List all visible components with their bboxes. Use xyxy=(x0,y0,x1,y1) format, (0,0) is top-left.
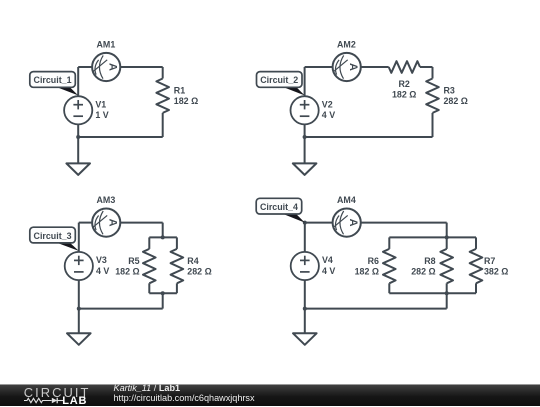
svg-text:182 Ω: 182 Ω xyxy=(392,89,416,99)
voltage source V2 xyxy=(291,96,319,124)
ammeter AM1 xyxy=(92,53,120,81)
wire down to parallel top node xyxy=(162,223,164,238)
wire V4 bottom to ground xyxy=(304,280,306,333)
wire AM2 right to R2 xyxy=(361,66,389,68)
node V4 top corner xyxy=(303,221,307,225)
svg-text:182 Ω: 182 Ω xyxy=(355,267,379,277)
svg-text:4 V: 4 V xyxy=(96,266,109,276)
wire to R1 top xyxy=(162,67,164,79)
svg-text:282 Ω: 282 Ω xyxy=(411,267,435,277)
wire parallel network to bottom xyxy=(446,293,448,308)
wire AM4 right xyxy=(361,222,447,224)
voltage source V3 xyxy=(65,252,93,280)
wire R7 top lead xyxy=(475,237,477,249)
wire AM2 left xyxy=(305,66,333,68)
svg-text:4 V: 4 V xyxy=(322,266,335,276)
wire R6 bottom lead xyxy=(388,283,390,293)
wire R4 bottom lead xyxy=(176,283,178,293)
ground xyxy=(67,333,91,345)
resistor R3 xyxy=(426,79,439,113)
node (junction) xyxy=(76,135,80,139)
svg-text:182 Ω: 182 Ω xyxy=(174,96,198,106)
wire parallel bottom bar xyxy=(149,292,177,294)
label Circuit_4 callout xyxy=(256,198,305,222)
wire parallel top bar xyxy=(149,236,177,238)
svg-text:Circuit_4: Circuit_4 xyxy=(260,202,298,212)
svg-text:V3: V3 xyxy=(96,255,107,265)
wire V3 top xyxy=(78,223,80,252)
wire AM3 right xyxy=(120,222,162,224)
node parallel bottom xyxy=(161,291,165,295)
svg-text:A: A xyxy=(347,63,359,71)
wire R8 bottom lead xyxy=(446,283,448,293)
svg-text:R1: R1 xyxy=(174,86,185,96)
wire bottom circuit 3 xyxy=(79,308,163,310)
ground xyxy=(66,163,90,175)
voltage source V4 xyxy=(291,252,319,280)
svg-text:V4: V4 xyxy=(322,255,333,265)
svg-text:AM2: AM2 xyxy=(337,40,356,50)
resistor R8 xyxy=(440,249,453,283)
wire V1 top to AM1 branch xyxy=(77,67,79,96)
wire V1 bottom to ground xyxy=(77,124,79,163)
resistor R7 xyxy=(470,249,483,283)
footer bar xyxy=(0,384,540,406)
wire bottom circuit 1 xyxy=(78,136,163,138)
svg-text:Circuit_2: Circuit_2 xyxy=(260,75,298,85)
node parallel top circuit 4 xyxy=(445,235,449,239)
wire AM4 left xyxy=(305,222,333,224)
svg-text:R6: R6 xyxy=(368,256,379,266)
node (junction) xyxy=(77,307,81,311)
svg-text:AM4: AM4 xyxy=(337,195,356,205)
svg-text:R3: R3 xyxy=(444,86,455,96)
label Circuit_1 callout xyxy=(30,72,78,96)
svg-text:282 Ω: 282 Ω xyxy=(444,96,468,106)
wire R5 top lead xyxy=(148,237,150,249)
svg-text:A: A xyxy=(106,219,118,227)
wire R4 top lead xyxy=(176,237,178,249)
wire parallel top bar circuit 4 xyxy=(389,236,476,238)
voltage source V1 xyxy=(64,96,92,124)
resistor R5 xyxy=(143,249,156,283)
svg-text:V1: V1 xyxy=(95,100,106,110)
resistor R2 xyxy=(389,61,420,73)
ground xyxy=(293,333,317,345)
ammeter AM4 xyxy=(333,209,361,237)
svg-text:R4: R4 xyxy=(187,256,198,266)
svg-text:R8: R8 xyxy=(424,256,435,266)
wire R2 to corner xyxy=(420,66,433,68)
wire parallel to bottom xyxy=(162,293,164,308)
wire AM3 left xyxy=(79,222,92,224)
wire V4 top xyxy=(304,223,306,252)
svg-text:4 V: 4 V xyxy=(322,110,335,120)
label Circuit_2 callout xyxy=(257,72,305,96)
svg-text:A: A xyxy=(347,219,359,227)
svg-text:V2: V2 xyxy=(322,100,333,110)
svg-text:182 Ω: 182 Ω xyxy=(115,267,139,277)
svg-text:Circuit_1: Circuit_1 xyxy=(34,75,72,85)
node parallel bottom circuit 4 xyxy=(445,291,449,295)
wire R3 bottom xyxy=(432,113,434,137)
wire V2 bottom to ground xyxy=(304,124,306,163)
svg-text:Circuit_3: Circuit_3 xyxy=(34,231,72,241)
node (junction) xyxy=(303,135,307,139)
wire R6 top lead xyxy=(388,237,390,249)
svg-text:A: A xyxy=(106,63,118,71)
CircuitLab logo xyxy=(24,385,91,400)
wire V2 top xyxy=(304,67,306,96)
wire R8 top lead xyxy=(446,237,448,249)
wire AM1 right xyxy=(120,66,162,68)
wire bottom circuit 4 xyxy=(305,308,447,310)
svg-text:1 V: 1 V xyxy=(95,110,108,120)
node parallel top xyxy=(161,235,165,239)
ground xyxy=(293,163,317,175)
svg-text:AM1: AM1 xyxy=(97,40,116,50)
svg-text:R5: R5 xyxy=(128,256,139,266)
svg-text:AM3: AM3 xyxy=(97,195,116,205)
footer text xyxy=(114,383,255,403)
label Circuit_3 callout xyxy=(30,227,79,251)
ammeter AM3 xyxy=(92,209,120,237)
wire R5 bottom lead xyxy=(148,283,150,293)
wire to R3 top xyxy=(432,67,434,79)
resistor R1 xyxy=(156,79,169,113)
wire parallel bottom bar circuit 4 xyxy=(389,292,476,294)
wire V3 bottom to ground xyxy=(78,280,80,333)
wire down to parallel network xyxy=(446,223,448,238)
node (junction) xyxy=(303,307,307,311)
svg-text:R2: R2 xyxy=(399,79,410,89)
wire R7 bottom lead xyxy=(475,283,477,293)
resistor R4 xyxy=(171,249,184,283)
wire R1 bottom xyxy=(162,113,164,137)
wire AM1 left xyxy=(78,66,92,68)
svg-text:282 Ω: 282 Ω xyxy=(187,267,211,277)
ammeter AM2 xyxy=(333,53,361,81)
resistor R6 xyxy=(383,249,396,283)
svg-text:R7: R7 xyxy=(484,256,495,266)
svg-text:382 Ω: 382 Ω xyxy=(484,267,508,277)
wire bottom circuit 2 xyxy=(305,136,433,138)
